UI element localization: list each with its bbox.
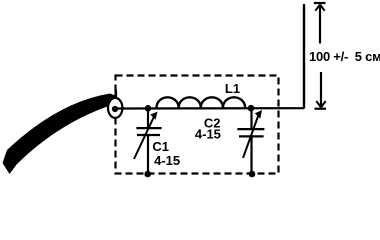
svg-text:100 +/- 5 см: 100 +/- 5 см [309,49,380,64]
svg-text:4-15: 4-15 [195,127,221,142]
svg-text:4-15: 4-15 [154,153,180,168]
svg-text:L1: L1 [225,81,240,96]
svg-text:C1: C1 [152,139,169,154]
